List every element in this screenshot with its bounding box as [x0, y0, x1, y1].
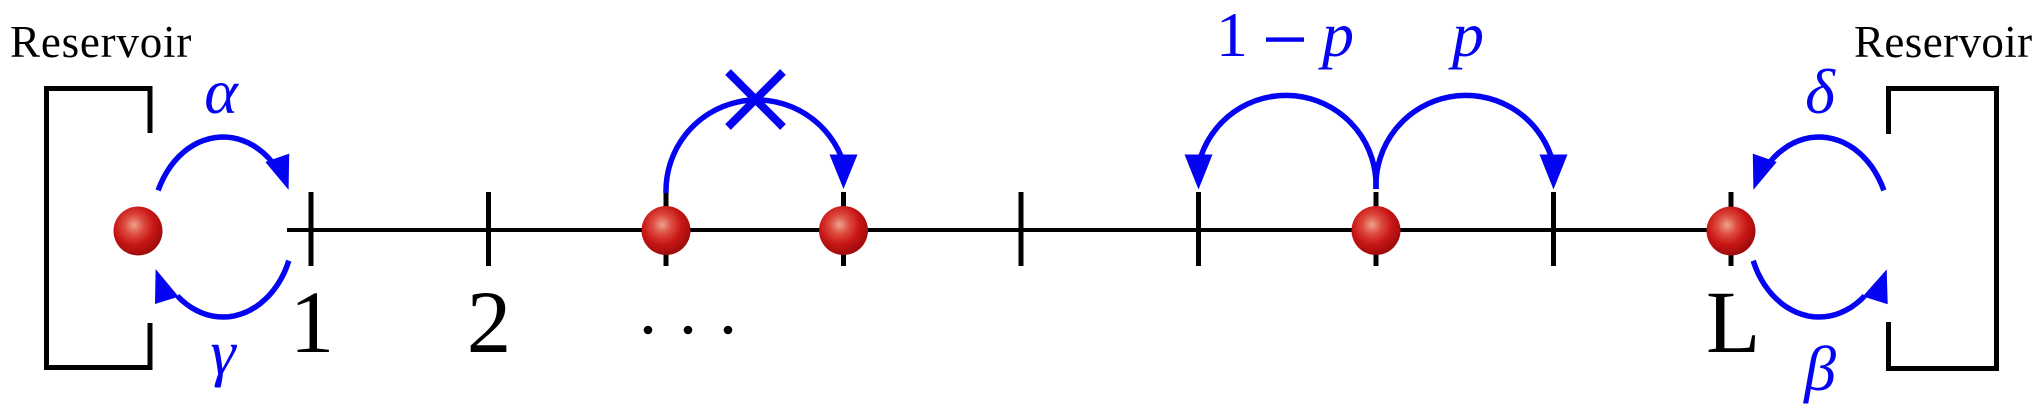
X blocked mark [728, 72, 783, 127]
svg-text:1: 1 [1216, 0, 1248, 70]
arrow blocked hop [666, 100, 858, 193]
site tick 8 [1551, 192, 1556, 266]
svg-text:δ: δ [1805, 56, 1836, 127]
label 1-p minus [1266, 37, 1304, 41]
right reservoir bracket [1889, 89, 1997, 369]
reservoir particle [114, 207, 163, 256]
site tick 3 [664, 192, 669, 266]
svg-text:Reservoir: Reservoir [1854, 17, 2033, 67]
svg-text:1: 1 [290, 274, 335, 372]
svg-text:α: α [204, 56, 239, 127]
svg-text:γ: γ [210, 317, 237, 388]
particle site L [1707, 207, 1756, 256]
arrow beta ejection [1753, 261, 1888, 317]
svg-text:2: 2 [467, 274, 512, 372]
svg-text:p: p [1318, 0, 1354, 70]
site tick 5 [1019, 192, 1024, 266]
svg-text:β: β [1802, 333, 1836, 404]
arrow hop p [1376, 95, 1568, 189]
svg-text:Reservoir: Reservoir [10, 17, 192, 67]
particle site 3 [642, 206, 691, 255]
arrow alpha injection [158, 137, 289, 190]
site tick 2 [486, 192, 491, 266]
site tick 7 [1374, 192, 1379, 266]
site tick 1 [309, 192, 314, 266]
particle site 4 [819, 206, 868, 255]
arrow hop 1-p [1185, 95, 1377, 189]
svg-text:L: L [1706, 274, 1760, 372]
site tick 6 [1196, 192, 1201, 266]
ellipsis dots [644, 326, 733, 335]
site tick 4 [841, 192, 846, 266]
arrow gamma ejection [155, 261, 289, 317]
site tick L [1729, 192, 1734, 266]
wire lattice line [287, 228, 1731, 232]
svg-text:p: p [1448, 0, 1484, 70]
particle site 7 [1352, 206, 1401, 255]
arrow delta injection [1753, 137, 1884, 190]
left reservoir bracket [47, 89, 151, 368]
